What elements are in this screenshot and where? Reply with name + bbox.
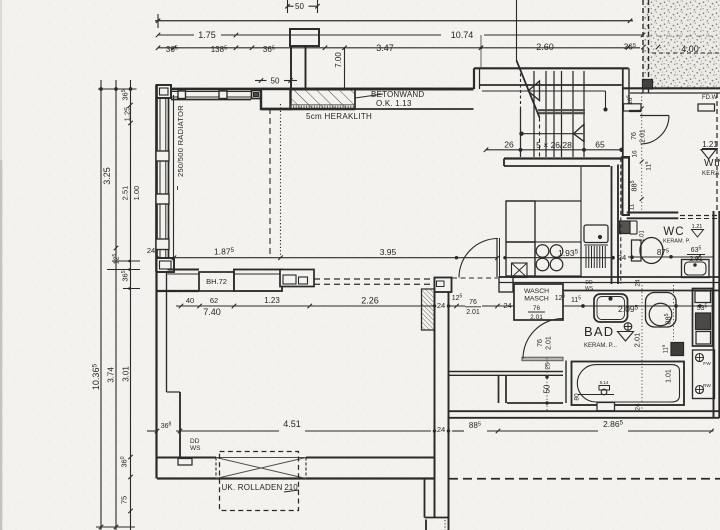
window post top a [178,91,186,99]
kitchen top edge [506,200,581,202]
svg-text:50: 50 [295,2,304,11]
room bottom wall [157,456,216,458]
svg-text:5 × 26/28: 5 × 26/28 [536,140,572,150]
svg-text:62: 62 [210,296,218,305]
washing machine [514,284,563,320]
cooktop [535,242,581,276]
svg-text:40: 40 [186,296,194,305]
svg-text:10.74: 10.74 [451,30,474,40]
dark post at entry [643,80,653,90]
svg-text:24: 24 [503,301,511,310]
svg-text:MASCH: MASCH [524,296,549,303]
dashed dim line 4.00 region [652,52,720,54]
svg-text:4.00: 4.00 [681,44,699,54]
fw rw box [693,350,715,399]
kitchen right wall [611,166,613,284]
stair treads [533,71,535,157]
existing building dashed boundary [642,0,644,93]
radiator line [173,95,175,262]
shaft niche dark [620,221,631,234]
stair walk line upper [482,90,606,92]
svg-text:24: 24 [635,403,642,411]
bathtub inner [577,365,679,402]
svg-text:26: 26 [504,140,514,150]
wc left wall [623,157,630,215]
bath interior partition [449,371,564,373]
small room walls [498,375,500,403]
svg-text:50: 50 [271,77,280,86]
entry door swing [641,116,670,145]
svg-text:24: 24 [635,279,642,287]
corner post top-left [157,85,172,98]
svg-text:O.K. 1.13: O.K. 1.13 [376,99,412,108]
bath vertical dim dotted [546,358,548,411]
svg-text:75: 75 [120,496,129,504]
svg-text:2.01: 2.01 [546,336,553,350]
window post top b [219,91,227,99]
svg-text:9.14: 9.14 [600,380,609,385]
svg-text:KERAM. P...: KERAM. P... [584,343,617,349]
svg-text:50: 50 [543,384,552,393]
window wall left glazing lines [159,98,161,260]
stair arrow upper [528,81,540,101]
kitchen door leaf [496,238,498,277]
svg-text:1.01: 1.01 [666,369,673,383]
svg-text:BETONWAND: BETONWAND [371,90,424,99]
svg-text:24: 24 [618,253,626,262]
svg-text:1.25: 1.25 [123,107,132,122]
svg-text:WASCH: WASCH [524,288,549,295]
band wall door section [280,270,314,287]
dimension chain y258 [168,257,497,259]
scan left edge shadow [0,0,2,530]
svg-text:2.51: 2.51 [121,186,130,201]
svg-text:1.01: 1.01 [640,230,646,242]
betonwand leader and label [355,94,383,98]
dotted line at step [444,520,446,530]
svg-text:3.95: 3.95 [380,247,397,257]
bath door leaf [522,357,563,360]
bath south wall [449,410,720,412]
svg-text:4.51: 4.51 [283,419,301,429]
stair lower wall [504,157,622,159]
svg-text:76: 76 [631,132,638,140]
entry door leaf [640,115,669,117]
svg-text:250/500 RADIATOR: 250/500 RADIATOR [176,105,185,177]
left dimension line B [115,80,117,530]
svg-text:76: 76 [469,299,477,306]
stair walk line lower [522,133,584,135]
bathtub outer [572,362,685,406]
window wall top glazing lines [171,91,251,93]
dimension chain y306 [176,305,434,307]
window post left a [156,151,169,161]
kitchen counter edge [580,167,582,277]
left dimension line A [100,80,102,530]
entry vertical dim line [641,93,643,213]
stair top wall [474,67,629,69]
bathtub step [597,403,615,411]
room left wall thick [179,392,181,458]
extension line at 481 [480,35,482,67]
hall west wall [434,278,436,519]
label DD WS kitchen [584,279,595,291]
door opening dashed [452,277,498,279]
svg-text:DD: DD [190,438,200,445]
svg-text:UK. ROLLADEN: UK. ROLLADEN [221,483,282,492]
shaft column [693,289,713,347]
svg-text:2.01: 2.01 [689,256,703,263]
hall wall corner block [435,278,452,293]
svg-text:80: 80 [574,393,581,401]
svg-text:3.25: 3.25 [102,167,112,185]
svg-text:65: 65 [595,140,605,150]
window post left c [156,239,169,250]
sink unit [584,225,608,243]
svg-text:2.01: 2.01 [466,309,480,316]
wc top wall [627,212,679,214]
svg-text:1.75: 1.75 [198,30,216,40]
kitchen door post [499,277,513,292]
svg-text:3.47: 3.47 [376,43,394,53]
bath door swing [523,319,563,359]
bathtub width dim [578,394,614,396]
svg-text:24: 24 [437,425,445,434]
svg-text:BAD: BAD [584,324,614,339]
dimension 50 chimney top [288,5,294,7]
dimension 50 pier [255,80,267,82]
svg-text:24: 24 [437,301,445,310]
section line vertical [516,0,518,61]
stair arrow lower [574,124,585,141]
wall band to stairs [291,88,474,91]
svg-text:1.23: 1.23 [264,296,280,305]
wc top wall dashed part [680,215,720,217]
window end post dark [252,91,261,99]
svg-text:76: 76 [537,339,544,347]
dimension row 36.5 138.5 36.5 3.47 2.60 36.5 4.00 [158,47,640,49]
stair right wall / entry west wall [622,68,624,157]
left dim bottom bar [96,526,135,528]
kitchen dashed line [620,158,622,284]
hall dotted reference line [280,104,282,258]
stair flight boundary dashed [520,68,522,108]
wall pier 50 white [261,89,291,109]
concrete wall hatched [291,89,356,109]
right edge dashed upper [716,93,718,211]
window post left b [156,194,169,204]
window cross [216,458,306,479]
corner post bottom-left [157,258,175,272]
svg-text:2.01: 2.01 [640,129,647,143]
svg-text:KERAM. P.: KERAM. P. [663,239,691,245]
kitchen tall unit [506,201,535,242]
round basin [646,293,677,328]
stair dimension line [486,149,622,151]
svg-text:24: 24 [147,246,155,255]
bath north wall [499,276,719,278]
stair cut break line [538,109,585,111]
chimney above roof [290,29,319,46]
kitchen door swing [459,239,498,278]
pantry box [512,263,528,278]
shower tray [594,294,628,322]
entry door sill [698,104,715,111]
cellar stair hatch [422,289,435,330]
faint line continuation right [646,35,714,37]
bath vertical dim a [641,285,643,410]
svg-text:FW: FW [703,361,711,367]
left dim top bar [98,88,137,90]
svg-text:2.26: 2.26 [361,296,379,306]
svg-text:FD.W: FD.W [702,95,718,101]
toilet [632,240,642,261]
hall dashed reference line [269,108,271,258]
left dim ticks [99,87,103,91]
svg-text:2.60: 2.60 [536,42,554,52]
entry wall stub [624,104,642,111]
band wall mid section [234,270,282,292]
existing building stippled block [643,0,720,88]
dashed property line bottom [449,478,720,480]
bad vent symbol [624,323,632,331]
room left wall thin [155,272,157,479]
svg-text:WS: WS [190,445,201,452]
dimension row 1.75 / 10.74 [158,34,194,36]
svg-text:25: 25 [545,362,552,370]
right edge wall [713,211,715,418]
svg-text:7.00: 7.00 [334,52,343,68]
bath vertical dim b [673,285,675,340]
window sill detail [178,459,192,466]
bath radiator dark [671,343,684,356]
band wall left section [168,268,200,270]
window x left post [215,458,217,479]
svg-text:RW: RW [703,383,711,389]
wc washbasin [682,260,710,278]
svg-text:16: 16 [632,150,639,158]
svg-text:5cm HERAKLITH: 5cm HERAKLITH [306,112,372,121]
svg-text:BH.72: BH.72 [206,277,227,286]
svg-text:3.01: 3.01 [122,366,131,382]
svg-text:1.00: 1.00 [132,186,141,201]
window wall left outer line [155,85,158,272]
svg-text:1.21: 1.21 [702,140,718,149]
left dimension line C [130,80,132,530]
svg-text:2.01: 2.01 [530,314,543,321]
heraklith strip [291,104,356,106]
entry top wall [623,87,720,89]
top overall dimension line [155,20,633,22]
svg-text:7.40: 7.40 [203,307,221,317]
svg-text:2.01: 2.01 [633,333,642,348]
stair section diagonal [517,61,540,118]
dashed wall continuation [314,278,435,280]
svg-text:WC: WC [663,226,684,238]
svg-text:76: 76 [533,305,541,312]
bathtub taps [601,389,607,395]
bh72 box [199,272,234,291]
svg-text:3.74: 3.74 [107,367,116,383]
window wall top outer line [156,88,474,91]
dimension line 4.51 etc [147,430,158,432]
right wall step to boundary [424,479,426,518]
sink drainboard [585,246,587,268]
dimension 7.00 vertical [344,48,346,89]
rolladen dashed box [220,452,299,511]
